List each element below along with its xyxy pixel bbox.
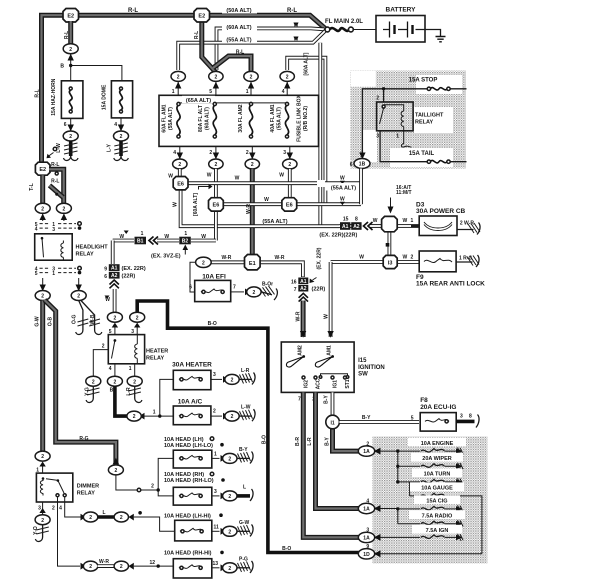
svg-text:20A WIPER: 20A WIPER bbox=[422, 456, 451, 462]
svg-text:R-L: R-L bbox=[287, 8, 297, 14]
svg-text:10A EFI: 10A EFI bbox=[202, 274, 226, 281]
svg-text:2: 2 bbox=[209, 150, 212, 156]
svg-text:O-B: O-B bbox=[48, 317, 54, 327]
svg-text:I15: I15 bbox=[358, 358, 367, 364]
svg-text:R-L: R-L bbox=[51, 179, 59, 185]
svg-text:7: 7 bbox=[294, 287, 297, 293]
svg-text:3: 3 bbox=[213, 372, 216, 378]
svg-text:1: 1 bbox=[172, 89, 175, 95]
svg-text:L-W: L-W bbox=[241, 405, 251, 411]
svg-text:ACC: ACC bbox=[316, 378, 322, 389]
svg-text:2: 2 bbox=[288, 162, 291, 168]
svg-text:10A HEAD (LH-LO): 10A HEAD (LH-LO) bbox=[164, 443, 213, 449]
svg-text:(60A ALT): (60A ALT) bbox=[226, 25, 251, 31]
svg-text:(22R): (22R) bbox=[122, 274, 136, 280]
svg-text:2: 2 bbox=[133, 379, 136, 385]
svg-text:2: 2 bbox=[41, 454, 44, 460]
svg-text:E6: E6 bbox=[286, 203, 293, 209]
svg-text:A1: A1 bbox=[342, 224, 349, 230]
svg-text:1A: 1A bbox=[363, 449, 370, 455]
svg-text:2: 2 bbox=[115, 468, 118, 474]
svg-text:A1: A1 bbox=[111, 266, 118, 272]
svg-text:2: 2 bbox=[178, 162, 181, 168]
svg-text:2: 2 bbox=[120, 515, 123, 521]
svg-text:2: 2 bbox=[213, 409, 216, 415]
svg-text:L-R: L-R bbox=[241, 368, 250, 374]
svg-text:10A TURN: 10A TURN bbox=[424, 472, 451, 478]
svg-text:W-R: W-R bbox=[99, 559, 109, 565]
svg-text:T-L: T-L bbox=[29, 183, 35, 191]
svg-text:2: 2 bbox=[411, 255, 414, 261]
svg-text:4: 4 bbox=[114, 122, 117, 128]
svg-text:2: 2 bbox=[120, 134, 123, 140]
svg-text:B-R: B-R bbox=[295, 437, 301, 446]
svg-text:60A FL AM1: 60A FL AM1 bbox=[162, 104, 168, 132]
svg-text:L: L bbox=[243, 485, 246, 491]
svg-text:1: 1 bbox=[141, 231, 144, 237]
svg-text:W: W bbox=[264, 197, 269, 203]
svg-text:RELAY: RELAY bbox=[415, 120, 433, 126]
svg-text:15A HAZ-HORN: 15A HAZ-HORN bbox=[51, 78, 57, 115]
svg-text:15A STOP: 15A STOP bbox=[409, 78, 438, 84]
svg-text:2: 2 bbox=[151, 484, 154, 490]
svg-text:1: 1 bbox=[129, 366, 132, 372]
svg-text:R-L: R-L bbox=[51, 162, 59, 168]
svg-text:2: 2 bbox=[52, 506, 55, 512]
svg-text:ST1: ST1 bbox=[345, 379, 351, 388]
svg-text:R-G: R-G bbox=[79, 436, 88, 442]
svg-text:80A FL ALT: 80A FL ALT bbox=[198, 105, 204, 132]
svg-text:2: 2 bbox=[231, 378, 234, 384]
svg-text:2: 2 bbox=[77, 294, 80, 300]
svg-text:B2: B2 bbox=[182, 239, 189, 245]
svg-text:3: 3 bbox=[283, 150, 286, 156]
svg-text:2: 2 bbox=[231, 414, 234, 420]
svg-text:9: 9 bbox=[104, 267, 107, 273]
svg-text:(55A ALT): (55A ALT) bbox=[262, 219, 287, 225]
svg-text:3: 3 bbox=[376, 134, 379, 140]
svg-text:W: W bbox=[164, 234, 169, 240]
svg-text:10A A/C: 10A A/C bbox=[178, 398, 203, 405]
svg-text:R-L: R-L bbox=[128, 8, 138, 14]
svg-text:E6: E6 bbox=[177, 181, 184, 187]
svg-text:B: B bbox=[60, 64, 64, 70]
svg-text:7.5A RADIO: 7.5A RADIO bbox=[422, 513, 453, 519]
svg-text:2: 2 bbox=[202, 260, 205, 266]
svg-text:11:M/T: 11:M/T bbox=[396, 190, 412, 196]
svg-text:1A: 1A bbox=[363, 507, 370, 513]
svg-text:B: B bbox=[110, 388, 114, 394]
svg-text:HEADLIGHT: HEADLIGHT bbox=[76, 245, 109, 251]
svg-text:7: 7 bbox=[233, 284, 236, 290]
svg-text:(EX. 22R): (EX. 22R) bbox=[317, 247, 323, 269]
svg-text:15A TAIL: 15A TAIL bbox=[409, 151, 435, 157]
svg-text:R-L: R-L bbox=[35, 89, 41, 97]
svg-text:7: 7 bbox=[298, 396, 301, 402]
svg-text:15A DOME: 15A DOME bbox=[101, 84, 107, 110]
svg-text:2: 2 bbox=[366, 441, 369, 447]
svg-text:40A FL AM1: 40A FL AM1 bbox=[270, 104, 276, 132]
svg-text:W: W bbox=[340, 197, 345, 203]
svg-text:AM1: AM1 bbox=[327, 345, 333, 356]
svg-text:3: 3 bbox=[460, 414, 463, 420]
svg-text:2: 2 bbox=[114, 379, 117, 385]
svg-text:2: 2 bbox=[250, 75, 253, 81]
svg-text:10A GAUGE: 10A GAUGE bbox=[421, 486, 453, 492]
svg-text:L-R: L-R bbox=[126, 387, 132, 396]
svg-text:L-R: L-R bbox=[307, 437, 313, 446]
svg-text:2: 2 bbox=[253, 290, 256, 296]
svg-text:4: 4 bbox=[366, 499, 369, 505]
svg-text:G-W: G-W bbox=[239, 520, 250, 526]
svg-text:B-Y: B-Y bbox=[325, 437, 331, 446]
svg-text:W: W bbox=[207, 173, 212, 179]
svg-text:2: 2 bbox=[89, 564, 92, 570]
svg-text:1A: 1A bbox=[363, 536, 370, 542]
svg-text:W: W bbox=[279, 173, 284, 179]
svg-text:HEATER: HEATER bbox=[146, 349, 168, 355]
svg-text:A1: A1 bbox=[300, 279, 307, 285]
svg-text:RELAY: RELAY bbox=[77, 491, 95, 497]
svg-text:E2: E2 bbox=[39, 167, 46, 173]
svg-text:IG2: IG2 bbox=[304, 380, 310, 388]
svg-text:I1: I1 bbox=[331, 420, 335, 426]
svg-text:A2: A2 bbox=[111, 273, 118, 279]
svg-text:10A HEAD (RH-LO): 10A HEAD (RH-LO) bbox=[164, 478, 214, 484]
svg-text:W: W bbox=[359, 255, 364, 261]
svg-text:2: 2 bbox=[41, 294, 44, 300]
svg-text:(EX. 22R)(22R): (EX. 22R)(22R) bbox=[319, 233, 357, 239]
svg-text:W-R: W-R bbox=[296, 311, 302, 321]
svg-text:W: W bbox=[340, 176, 345, 182]
svg-text:1: 1 bbox=[153, 410, 156, 416]
svg-text:1: 1 bbox=[246, 89, 249, 95]
svg-text:12: 12 bbox=[150, 560, 156, 566]
svg-text:RELAY: RELAY bbox=[76, 252, 94, 258]
svg-text:1: 1 bbox=[184, 231, 187, 237]
svg-text:4: 4 bbox=[35, 227, 38, 233]
svg-text:8: 8 bbox=[355, 217, 358, 223]
svg-text:IG1: IG1 bbox=[333, 380, 339, 388]
svg-text:2: 2 bbox=[215, 162, 218, 168]
svg-text:1B: 1B bbox=[359, 162, 366, 168]
svg-text:5: 5 bbox=[35, 271, 38, 277]
svg-text:8: 8 bbox=[469, 414, 472, 420]
svg-text:(55A ALT): (55A ALT) bbox=[226, 38, 251, 44]
svg-text:3: 3 bbox=[38, 506, 41, 512]
svg-text:6: 6 bbox=[189, 284, 192, 290]
svg-text:AM2: AM2 bbox=[298, 345, 304, 356]
svg-text:4: 4 bbox=[282, 89, 285, 95]
svg-text:W: W bbox=[168, 174, 173, 180]
svg-text:2: 2 bbox=[177, 75, 180, 81]
svg-text:W-B: W-B bbox=[90, 314, 96, 324]
svg-text:B-O: B-O bbox=[282, 546, 291, 552]
svg-text:W: W bbox=[403, 255, 408, 261]
svg-text:(55A ALT): (55A ALT) bbox=[168, 107, 174, 130]
svg-text:R-L: R-L bbox=[236, 50, 244, 56]
svg-text:W: W bbox=[324, 314, 330, 319]
svg-text:B-O: B-O bbox=[208, 321, 217, 327]
svg-text:2: 2 bbox=[63, 206, 66, 212]
svg-text:W: W bbox=[403, 218, 408, 224]
svg-text:2: 2 bbox=[69, 134, 72, 140]
svg-text:R-L: R-L bbox=[194, 31, 200, 39]
svg-text:B1: B1 bbox=[137, 239, 144, 245]
svg-text:I3: I3 bbox=[388, 260, 393, 266]
svg-text:(R/B NO.2): (R/B NO.2) bbox=[303, 106, 309, 131]
svg-text:Y-O: Y-O bbox=[33, 526, 39, 535]
svg-text:O-G: O-G bbox=[71, 314, 77, 324]
svg-text:1D: 1D bbox=[363, 552, 370, 558]
svg-text:W: W bbox=[235, 176, 240, 182]
svg-text:FUSIBLE LINK BOX: FUSIBLE LINK BOX bbox=[297, 95, 303, 142]
svg-text:11: 11 bbox=[214, 524, 220, 530]
svg-text:2: 2 bbox=[120, 564, 123, 570]
svg-text:W-R: W-R bbox=[246, 204, 252, 214]
svg-text:2: 2 bbox=[286, 75, 289, 81]
svg-text:2: 2 bbox=[251, 162, 254, 168]
svg-text:15A REAR ANTI LOCK: 15A REAR ANTI LOCK bbox=[416, 281, 485, 288]
svg-text:(EX. 22R): (EX. 22R) bbox=[122, 266, 146, 272]
svg-text:(22R): (22R) bbox=[312, 287, 326, 293]
svg-text:3: 3 bbox=[366, 528, 369, 534]
svg-text:W: W bbox=[119, 234, 124, 240]
svg-text:(60A ALT): (60A ALT) bbox=[205, 107, 211, 130]
svg-text:10A ENGINE: 10A ENGINE bbox=[421, 441, 454, 447]
svg-text:1: 1 bbox=[214, 452, 217, 458]
svg-text:E2: E2 bbox=[198, 13, 205, 19]
svg-text:W: W bbox=[373, 218, 378, 224]
svg-text:2: 2 bbox=[89, 515, 92, 521]
svg-text:16: 16 bbox=[291, 280, 297, 286]
svg-text:20A ECU-IG: 20A ECU-IG bbox=[420, 404, 456, 411]
svg-text:7.5A IGN: 7.5A IGN bbox=[426, 528, 449, 534]
svg-text:W-R: W-R bbox=[221, 255, 231, 261]
svg-text:[60A ALT]: [60A ALT] bbox=[193, 193, 199, 216]
svg-text:2: 2 bbox=[41, 518, 44, 524]
svg-text:(50A ALT): (50A ALT) bbox=[226, 8, 251, 14]
svg-text:RELAY: RELAY bbox=[146, 356, 164, 362]
svg-text:3: 3 bbox=[214, 489, 217, 495]
svg-text:IGNITION: IGNITION bbox=[358, 365, 385, 371]
svg-text:30A FL AM2: 30A FL AM2 bbox=[238, 104, 244, 132]
svg-text:(55A ALT): (55A ALT) bbox=[277, 107, 283, 130]
svg-text:1: 1 bbox=[52, 271, 55, 277]
svg-text:15: 15 bbox=[343, 217, 349, 223]
svg-text:A2: A2 bbox=[353, 224, 360, 230]
svg-text:2: 2 bbox=[69, 47, 72, 53]
svg-text:2: 2 bbox=[136, 315, 139, 321]
svg-text:5: 5 bbox=[411, 415, 414, 421]
svg-text:A2: A2 bbox=[300, 286, 307, 292]
svg-text:B-Y: B-Y bbox=[362, 415, 371, 421]
svg-text:B-Y: B-Y bbox=[239, 447, 248, 453]
svg-text:2: 2 bbox=[133, 414, 136, 420]
svg-text:2: 2 bbox=[228, 494, 231, 500]
svg-text:10A HEAD (LH-HI): 10A HEAD (LH-HI) bbox=[164, 513, 211, 519]
svg-text:2: 2 bbox=[92, 379, 95, 385]
svg-text:13: 13 bbox=[213, 561, 219, 567]
svg-text:W: W bbox=[201, 234, 206, 240]
svg-text:6: 6 bbox=[104, 274, 107, 280]
svg-text:B-Or: B-Or bbox=[262, 282, 273, 288]
svg-text:2: 2 bbox=[228, 566, 231, 572]
svg-text:TAILLIGHT: TAILLIGHT bbox=[415, 113, 444, 119]
svg-text:B-O: B-O bbox=[262, 435, 268, 444]
svg-text:2: 2 bbox=[102, 344, 105, 350]
svg-text:W-R: W-R bbox=[275, 255, 285, 261]
svg-text:1: 1 bbox=[411, 218, 414, 224]
svg-text:(EX. 3VZ-E): (EX. 3VZ-E) bbox=[151, 254, 181, 260]
svg-text:(55A ALT): (55A ALT) bbox=[331, 186, 356, 192]
svg-text:DIMMER: DIMMER bbox=[77, 484, 99, 490]
svg-text:E6: E6 bbox=[213, 203, 220, 209]
svg-text:P-G: P-G bbox=[239, 556, 248, 562]
svg-text:[60A ALT]: [60A ALT] bbox=[304, 52, 310, 75]
svg-text:SW: SW bbox=[358, 372, 368, 378]
svg-text:30A HEATER: 30A HEATER bbox=[172, 362, 212, 369]
svg-text:9: 9 bbox=[366, 544, 369, 550]
svg-text:L-Y: L-Y bbox=[106, 143, 112, 152]
svg-text:2: 2 bbox=[41, 206, 44, 212]
svg-text:30A POWER CB: 30A POWER CB bbox=[416, 208, 466, 215]
svg-text:E2: E2 bbox=[67, 13, 74, 19]
svg-text:W: W bbox=[173, 202, 179, 207]
svg-text:2: 2 bbox=[114, 315, 117, 321]
svg-text:2: 2 bbox=[376, 96, 379, 102]
svg-text:2: 2 bbox=[228, 529, 231, 535]
svg-text:6: 6 bbox=[64, 122, 67, 128]
svg-text:L: L bbox=[102, 510, 105, 516]
svg-text:Y-G: Y-G bbox=[85, 387, 91, 396]
svg-text:4: 4 bbox=[109, 366, 112, 372]
svg-text:6: 6 bbox=[350, 162, 353, 168]
svg-text:3: 3 bbox=[52, 227, 55, 233]
svg-text:2: 2 bbox=[228, 457, 231, 463]
svg-text:2: 2 bbox=[215, 75, 218, 81]
svg-text:4: 4 bbox=[59, 506, 62, 512]
svg-text:E1: E1 bbox=[249, 261, 256, 267]
svg-text:B-Y: B-Y bbox=[324, 395, 330, 404]
svg-text:4: 4 bbox=[173, 150, 176, 156]
svg-text:10A HEAD (RH-HI): 10A HEAD (RH-HI) bbox=[164, 551, 212, 557]
svg-text:1: 1 bbox=[396, 134, 399, 140]
svg-text:BATTERY: BATTERY bbox=[386, 7, 417, 14]
svg-text:2: 2 bbox=[246, 150, 249, 156]
svg-text:G-W: G-W bbox=[35, 316, 41, 327]
svg-text:15A CIG: 15A CIG bbox=[426, 499, 447, 505]
svg-text:FL MAIN 2.0L: FL MAIN 2.0L bbox=[325, 19, 363, 25]
svg-text:5: 5 bbox=[209, 89, 212, 95]
svg-text:(65A ALT): (65A ALT) bbox=[186, 98, 211, 104]
